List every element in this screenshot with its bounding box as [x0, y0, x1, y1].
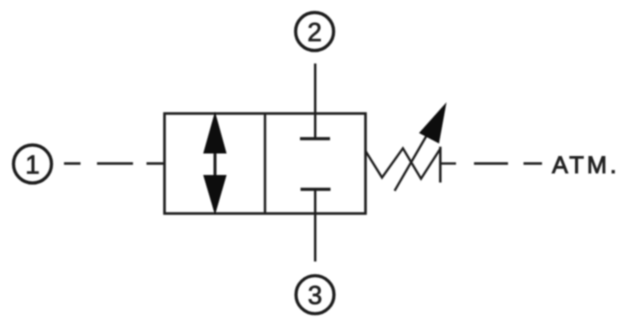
wire: stub from seat	[440, 162, 456, 164]
blocked port symbol bottom (right envelope)	[301, 189, 331, 213]
adjustment arrow through spring	[395, 102, 447, 191]
flow arrow (double-headed) in left envelope	[203, 112, 226, 216]
svg-text:1: 1	[25, 150, 39, 180]
port 3 circle	[296, 276, 334, 314]
wire: port 3 line	[314, 214, 316, 262]
wire: dashed pilot line from port 1 to valve body	[64, 162, 165, 164]
spring seat bar	[439, 147, 442, 183]
blocked port symbol top (right envelope)	[300, 114, 330, 140]
port 2 circle	[296, 13, 334, 51]
svg-text:3: 3	[308, 280, 322, 310]
svg-text:2: 2	[307, 17, 321, 47]
valve body envelope (two-position box)	[165, 114, 366, 214]
wire: dashed vent line to atmosphere	[474, 162, 542, 164]
wire: port 2 line	[314, 64, 316, 114]
svg-text:ATM.: ATM.	[552, 152, 620, 179]
port 1 circle	[14, 145, 52, 183]
spring (adjustable)	[366, 148, 440, 178]
envelope divider	[264, 114, 266, 214]
